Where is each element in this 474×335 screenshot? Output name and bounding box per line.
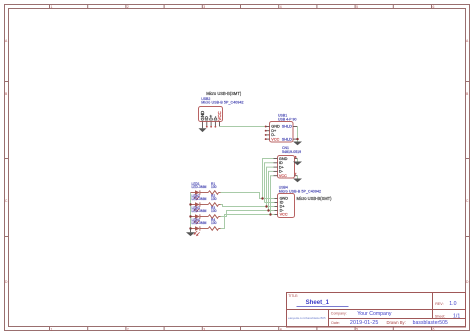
svg-text:2: 2 (127, 327, 129, 331)
svg-text:Company:: Company: (331, 312, 347, 316)
svg-text:Your Company: Your Company (357, 311, 392, 317)
svg-text:6: 6 (433, 327, 435, 331)
svg-text:5: 5 (356, 5, 358, 9)
svg-text:Sheet_1: Sheet_1 (306, 299, 330, 306)
svg-text:SHLD: SHLD (282, 137, 292, 141)
svg-text:3: 3 (203, 327, 205, 331)
svg-text:1: 1 (51, 5, 53, 9)
svg-text:2: 2 (127, 5, 129, 9)
svg-text:SHLD: SHLD (282, 125, 292, 129)
svg-text:VCC: VCC (279, 174, 287, 178)
svg-text:Date:: Date: (331, 321, 339, 325)
svg-text:Drawn By:: Drawn By: (387, 320, 406, 325)
svg-text:VCC: VCC (280, 213, 288, 217)
svg-text:VCC: VCC (271, 137, 279, 141)
svg-text:4: 4 (280, 5, 282, 9)
svg-text:2019-01-25: 2019-01-25 (350, 320, 379, 326)
svg-text:LED-3MM: LED-3MM (192, 221, 207, 225)
svg-text:6: 6 (433, 5, 435, 9)
svg-text:USB 4-P 90: USB 4-P 90 (278, 118, 296, 122)
svg-text:100: 100 (211, 221, 217, 225)
svg-text:4: 4 (280, 327, 282, 331)
svg-text:Micro USB-B 5P_C40942: Micro USB-B 5P_C40942 (279, 190, 321, 194)
svg-text:100: 100 (211, 185, 217, 189)
svg-text:Sheet:: Sheet: (435, 315, 446, 319)
svg-text:REV:: REV: (435, 302, 443, 306)
svg-text:5: 5 (356, 327, 358, 331)
svg-text:Micro USB-B 5P_C40942: Micro USB-B 5P_C40942 (201, 101, 243, 105)
svg-text:LED-3MM: LED-3MM (192, 197, 207, 201)
svg-text:Micro USB-B(SMT): Micro USB-B(SMT) (206, 91, 242, 96)
svg-text:3: 3 (203, 5, 205, 9)
svg-text:easyeda.com/bassblaster505: easyeda.com/bassblaster505 (288, 316, 326, 320)
svg-text:100: 100 (211, 209, 217, 213)
svg-text:1.0: 1.0 (449, 301, 456, 307)
svg-text:1: 1 (51, 327, 53, 331)
svg-text:bassblaster505: bassblaster505 (413, 320, 448, 326)
svg-text:Micro USB-B(SMT): Micro USB-B(SMT) (297, 196, 333, 201)
svg-text:1/1: 1/1 (453, 314, 460, 320)
svg-text:TITLE:: TITLE: (288, 294, 298, 298)
svg-text:100: 100 (211, 197, 217, 201)
svg-text:LED-3MM: LED-3MM (192, 209, 207, 213)
svg-text:VCC: VCC (217, 111, 222, 120)
svg-text:54819-0519: 54819-0519 (282, 150, 301, 154)
svg-text:LED-3MM: LED-3MM (192, 185, 207, 189)
